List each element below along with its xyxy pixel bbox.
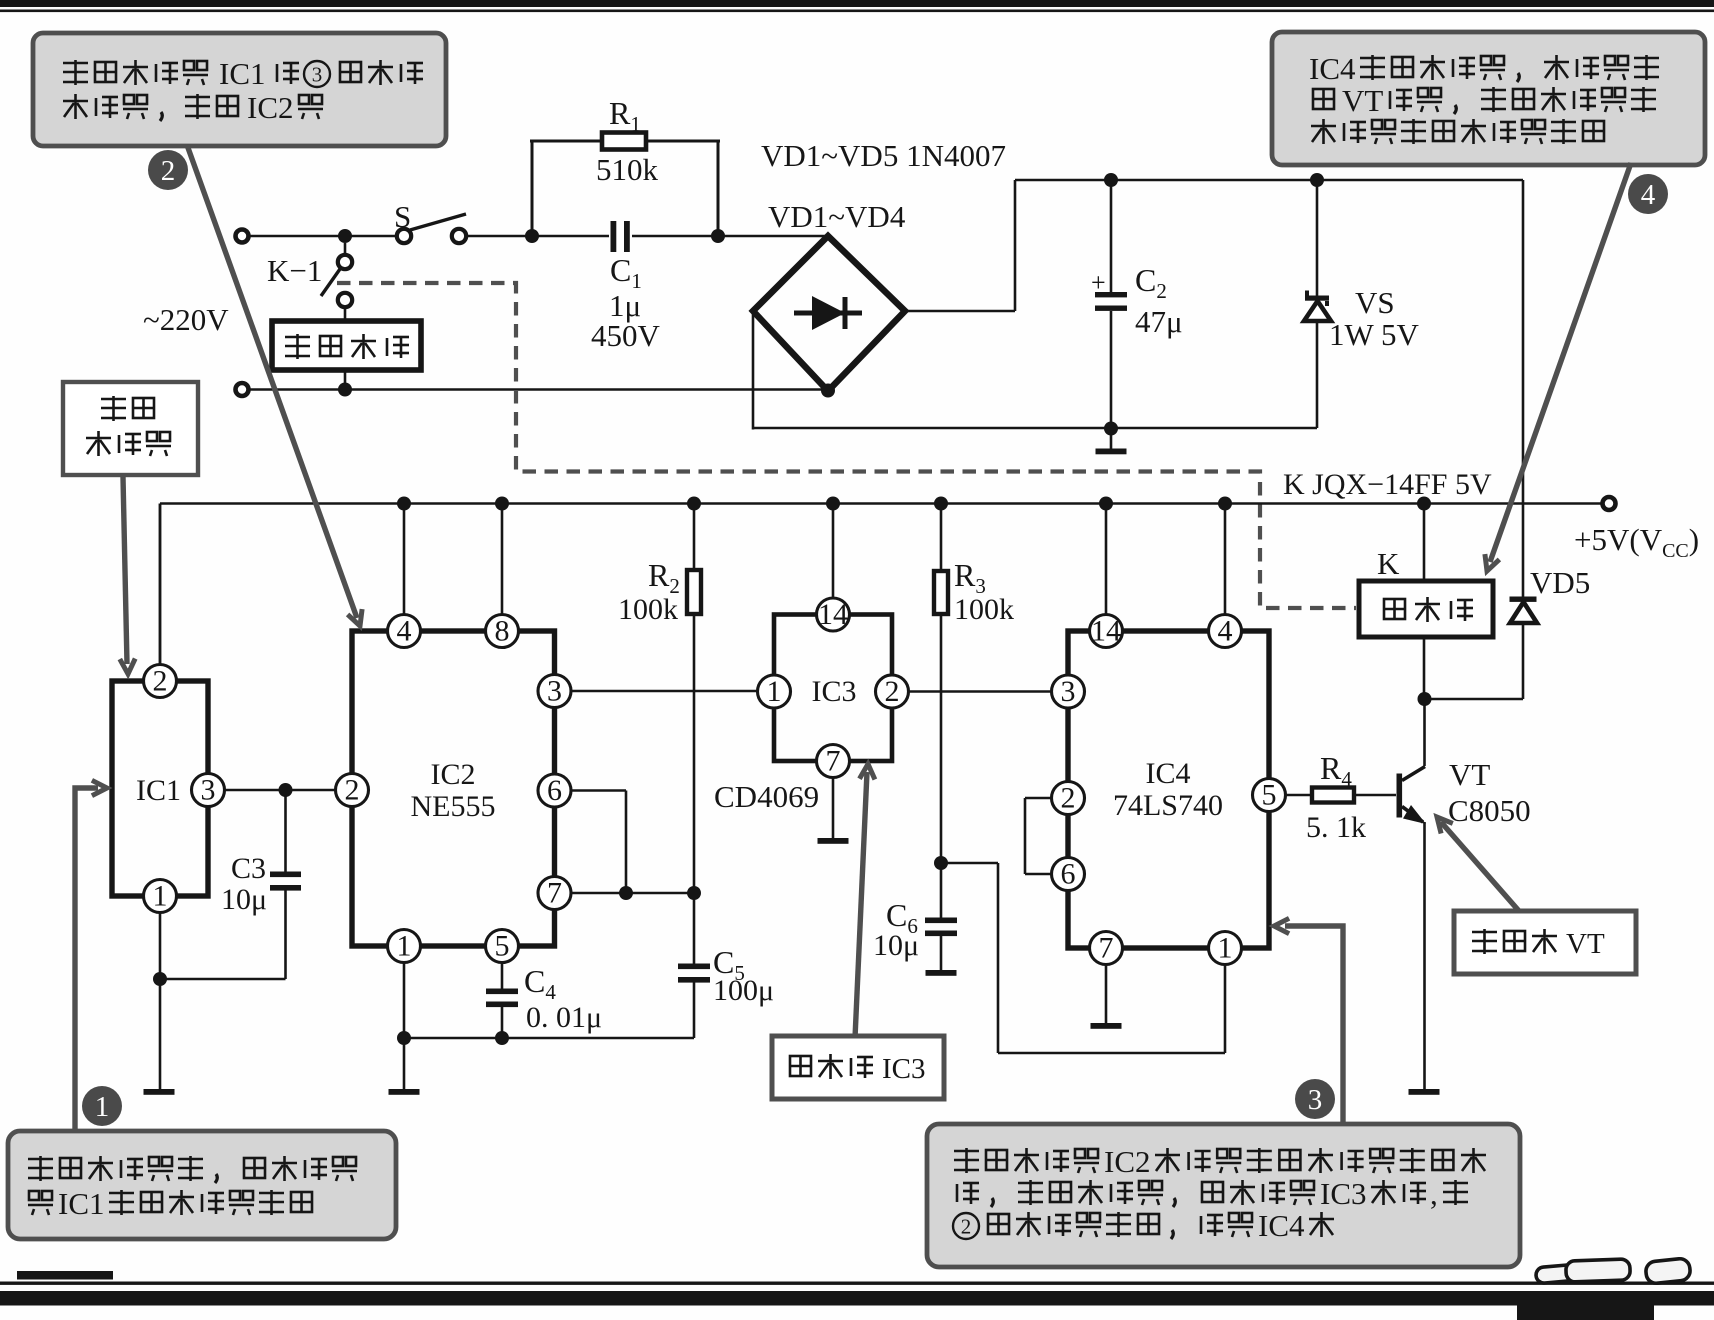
logic IC4 74LS740 bbox=[1068, 631, 1269, 948]
svg-text:3: 3 bbox=[547, 675, 562, 708]
ground IC2 bbox=[389, 1089, 420, 1095]
callout 4 text line2 bbox=[1313, 89, 1334, 109]
svg-text:VT: VT bbox=[1566, 928, 1605, 960]
arrow inverter label to IC3 pin7 bbox=[855, 772, 867, 1038]
pin 2 of IC1 bbox=[144, 665, 177, 698]
arrow callout2 to IC2 pin4 bbox=[187, 145, 357, 618]
wire +5V to IC3 pin14 bbox=[832, 504, 835, 599]
wire +5V to IC2 pin8 bbox=[501, 504, 504, 616]
svg-text:74LS740: 74LS740 bbox=[1113, 789, 1223, 822]
callout box 2 top-left bbox=[33, 33, 446, 146]
callout 1 text line2 bbox=[28, 1191, 53, 1215]
wire IC2 pin1 to ground bbox=[403, 963, 406, 1090]
bridge internal diode bbox=[794, 311, 862, 316]
capacitor C1 bbox=[611, 221, 617, 252]
svg-text:2: 2 bbox=[153, 665, 168, 698]
svg-text:2: 2 bbox=[885, 675, 900, 708]
svg-text:100μ: 100μ bbox=[713, 974, 774, 1007]
pin 4 of IC4 bbox=[1209, 615, 1242, 648]
svg-text:VD5: VD5 bbox=[1530, 565, 1590, 600]
ground VT emitter bbox=[1409, 1089, 1440, 1095]
timer IC2 NE555 bbox=[352, 631, 555, 946]
node +5V terminal bbox=[1603, 497, 1616, 510]
arrow callout3 to IC4 bbox=[1285, 926, 1343, 1124]
junction bridge bottom vertex bbox=[821, 384, 835, 398]
svg-text:~220V: ~220V bbox=[143, 302, 229, 337]
svg-text:K: K bbox=[1377, 546, 1400, 581]
junction +5V rail x=941 bbox=[934, 497, 948, 511]
svg-text:1: 1 bbox=[767, 675, 782, 708]
pin 6 of IC2 bbox=[538, 774, 571, 807]
pin 7 of IC3 bbox=[817, 745, 850, 778]
callout 3 text line1 bbox=[954, 1148, 979, 1173]
callout 4 text line3 bbox=[1311, 119, 1336, 144]
wire IC3 pin7 to ground bbox=[832, 778, 835, 839]
relay K coil box bbox=[1359, 581, 1493, 637]
svg-text:7: 7 bbox=[547, 877, 562, 910]
junction R1/C1 left bbox=[525, 229, 539, 243]
wire IC1 pin1 to ground bbox=[159, 913, 162, 1090]
svg-text:IC4: IC4 bbox=[1309, 51, 1356, 86]
junction pin1 bottom bbox=[397, 1031, 411, 1045]
node AC input lower terminal bbox=[236, 383, 249, 396]
pin 3 of IC2 bbox=[538, 675, 571, 708]
svg-text:IC4: IC4 bbox=[1258, 1208, 1305, 1243]
junction at K-1 top bbox=[338, 229, 352, 243]
svg-text:2: 2 bbox=[961, 1215, 972, 1239]
decor bottom-right bbox=[1535, 1258, 1691, 1284]
svg-text:5. 1k: 5. 1k bbox=[1306, 811, 1366, 844]
wire +5V to relay bbox=[1423, 504, 1426, 582]
label box transistor VT bbox=[1454, 911, 1636, 974]
ground IC1 bbox=[144, 1089, 175, 1095]
svg-text:1: 1 bbox=[95, 1091, 110, 1123]
text jidianqi bbox=[1384, 599, 1405, 619]
node AC input upper terminal bbox=[236, 230, 249, 243]
wire fan to lower line bbox=[344, 370, 347, 390]
text jieshouqi bbox=[86, 431, 111, 456]
pin 2 of IC3 bbox=[876, 675, 909, 708]
junction +5V rail x=1424 bbox=[1417, 497, 1431, 511]
capacitor C5 bbox=[693, 893, 696, 964]
svg-text:IC2: IC2 bbox=[431, 758, 476, 791]
pin 1 of IC2 bbox=[388, 930, 421, 963]
text jingtiguan VT bbox=[1472, 929, 1497, 954]
wire bridge left to ground rail bbox=[752, 311, 755, 430]
inverter IC3 CD4069 bbox=[774, 615, 892, 762]
svg-text:CD4069: CD4069 bbox=[714, 779, 819, 814]
pin 4 of IC2 bbox=[388, 615, 421, 648]
svg-text:C8050: C8050 bbox=[1448, 793, 1531, 828]
junction R3 C6 IC4pin1 bbox=[934, 856, 948, 870]
wire R1 branch bbox=[531, 141, 534, 236]
callout box 4 top-right bbox=[1272, 32, 1705, 165]
wire IC3 pin2 to IC4 pin3 bbox=[909, 690, 1052, 693]
transistor VT C8050 bbox=[1423, 699, 1426, 766]
svg-text:7: 7 bbox=[1099, 932, 1114, 965]
svg-text:,: , bbox=[1430, 1176, 1438, 1211]
svg-text:7: 7 bbox=[826, 745, 841, 778]
numbered circle 3 bbox=[1295, 1079, 1335, 1119]
callout box 3 bottom-middle bbox=[927, 1124, 1520, 1267]
svg-text:10μ: 10μ bbox=[221, 883, 267, 916]
junction +5V rail x=1225 bbox=[1218, 497, 1232, 511]
ground C6 bbox=[926, 970, 957, 976]
wire bridge right to top rail bbox=[905, 310, 1015, 313]
svg-text:K JQX−14FF 5V: K JQX−14FF 5V bbox=[1283, 468, 1492, 501]
zener diode VS bbox=[1316, 180, 1319, 296]
wire R3/C6 node to IC4 pin1 bbox=[941, 862, 998, 865]
wire ground rail bbox=[753, 427, 1317, 430]
junction collector node bbox=[1418, 692, 1432, 706]
pin 1 of IC3 bbox=[758, 675, 791, 708]
svg-text:IC1: IC1 bbox=[58, 1186, 105, 1221]
junction fan bottom bbox=[338, 383, 352, 397]
diode VD5 bbox=[1510, 597, 1537, 602]
fan load box bbox=[272, 321, 421, 370]
wire relay bottom to collector node bbox=[1423, 637, 1426, 699]
junction C2 bottom bbox=[1104, 422, 1118, 436]
resistor R4 bbox=[1286, 794, 1313, 797]
svg-text:2: 2 bbox=[1061, 782, 1076, 815]
junction +5V rail x=404 bbox=[397, 497, 411, 511]
svg-text:2: 2 bbox=[161, 155, 176, 187]
junction C3 bottom bbox=[153, 972, 167, 986]
svg-text:6: 6 bbox=[547, 774, 562, 807]
pin 2 of IC4 bbox=[1052, 782, 1085, 815]
pin 5 of IC4 bbox=[1253, 779, 1286, 812]
arrow callout4 to relay bbox=[1490, 163, 1631, 562]
junction pin6 link bbox=[619, 886, 633, 900]
junction +5V rail x=1106 bbox=[1099, 497, 1113, 511]
resistor R1 bbox=[602, 133, 646, 150]
callout 1 text line1 bbox=[28, 1156, 53, 1181]
junction R1/C1 right bbox=[711, 229, 725, 243]
svg-text:C3: C3 bbox=[231, 852, 266, 885]
capacitor C4 bbox=[501, 963, 504, 990]
ground C2 bbox=[1096, 449, 1127, 455]
wire top rail down right side bbox=[1522, 180, 1525, 597]
pin 14 of IC3 bbox=[817, 598, 850, 631]
junction +5V rail x=694 bbox=[687, 497, 701, 511]
svg-text:1W 5V: 1W 5V bbox=[1329, 317, 1419, 352]
svg-text:3: 3 bbox=[1308, 1084, 1323, 1116]
svg-text:S: S bbox=[394, 199, 411, 234]
wire IC2 pin6 to pin7 node bbox=[571, 789, 626, 792]
pin 3 of IC4 bbox=[1052, 675, 1085, 708]
pin 5 of IC2 bbox=[486, 930, 519, 963]
svg-text:4: 4 bbox=[397, 615, 412, 648]
capacitor C2 bbox=[1110, 180, 1113, 293]
svg-text:14: 14 bbox=[1091, 615, 1121, 648]
svg-text:6: 6 bbox=[1061, 858, 1076, 891]
svg-text:IC3: IC3 bbox=[882, 1053, 926, 1085]
arrow callout1 to IC1 bbox=[75, 788, 98, 1131]
wire +5V to IC2 pin4 bbox=[403, 504, 406, 616]
junction +5V rail x=833 bbox=[826, 497, 840, 511]
wire IC1 pin3 to IC2 pin2 bbox=[225, 789, 336, 792]
svg-text:VT: VT bbox=[1342, 83, 1383, 118]
junction C4 bottom bbox=[495, 1031, 509, 1045]
svg-text:5: 5 bbox=[1262, 779, 1277, 812]
junction VS top bbox=[1310, 173, 1324, 187]
svg-text:1: 1 bbox=[153, 880, 168, 913]
wire AC lower line bbox=[249, 388, 828, 391]
dashed link K-1 to relay K bbox=[337, 283, 1356, 608]
svg-text:VD1~VD5 1N4007: VD1~VD5 1N4007 bbox=[761, 138, 1006, 173]
wire IC2 pin7 line bbox=[571, 892, 694, 895]
callout 2 text line2 bbox=[63, 94, 88, 119]
svg-text:IC1: IC1 bbox=[136, 774, 181, 807]
svg-text:14: 14 bbox=[818, 598, 848, 631]
junction R2 C5 bbox=[687, 886, 701, 900]
svg-text:VT: VT bbox=[1449, 757, 1490, 792]
text hongwai bbox=[101, 396, 126, 421]
callout 3 text line2 bbox=[957, 1183, 979, 1204]
svg-text:100k: 100k bbox=[618, 593, 678, 626]
capacitor C3 bbox=[284, 790, 287, 872]
svg-text:IC2: IC2 bbox=[1104, 1144, 1151, 1179]
svg-text:1: 1 bbox=[397, 930, 412, 963]
wire +V top rail bbox=[1015, 179, 1523, 182]
wire IC2 pin3 to IC3 pin1 bbox=[571, 690, 758, 693]
callout 2 text line1 bbox=[63, 60, 88, 85]
ground IC4 bbox=[1091, 1023, 1122, 1029]
label box inverter IC3 bbox=[772, 1036, 944, 1099]
svg-text:3: 3 bbox=[201, 774, 216, 807]
wire pin1-C4-C5 bottom link bbox=[404, 1037, 694, 1040]
arrow VT label to transistor bbox=[1441, 822, 1519, 911]
switch S bbox=[397, 229, 411, 243]
pin 1 of IC4 bbox=[1209, 932, 1242, 965]
wire +5V rail bbox=[160, 502, 1602, 505]
svg-text:VD1~VD4: VD1~VD4 bbox=[768, 199, 906, 234]
svg-text:IC2: IC2 bbox=[247, 90, 294, 125]
junction C3 top bbox=[279, 783, 293, 797]
pin 3 of IC1 bbox=[192, 774, 225, 807]
svg-text:4: 4 bbox=[1218, 615, 1233, 648]
capacitor C6 bbox=[925, 918, 957, 924]
numbered circle 1 bbox=[82, 1086, 122, 1126]
pin 7 of IC2 bbox=[538, 877, 571, 910]
pin 14 of IC4 bbox=[1090, 615, 1123, 648]
svg-text:IC3: IC3 bbox=[1320, 1176, 1367, 1211]
arrow infrared box to IC1 bbox=[123, 477, 127, 664]
svg-text:8: 8 bbox=[495, 615, 510, 648]
callout box 1 bottom-left bbox=[8, 1131, 396, 1239]
junction C2 top bbox=[1104, 173, 1118, 187]
resistor R2 bbox=[693, 504, 696, 571]
svg-text:+: + bbox=[1091, 268, 1106, 297]
resistor R3 bbox=[940, 504, 943, 572]
svg-text:K−1: K−1 bbox=[267, 253, 322, 288]
svg-text:4: 4 bbox=[1641, 179, 1656, 211]
svg-text:2: 2 bbox=[345, 774, 360, 807]
wire IC4 pin7 to ground bbox=[1105, 965, 1108, 1024]
pin 6 of IC4 bbox=[1052, 858, 1085, 891]
wire +5V to IC4 pin4 bbox=[1224, 504, 1227, 616]
relay contact K-1 bbox=[344, 243, 347, 255]
pin 7 of IC4 bbox=[1090, 932, 1123, 965]
svg-text:3: 3 bbox=[1061, 675, 1076, 708]
svg-text:IC4: IC4 bbox=[1146, 757, 1191, 790]
svg-text:IC3: IC3 bbox=[812, 675, 857, 708]
pin 1 of IC1 bbox=[144, 880, 177, 913]
junction +5V rail x=502 bbox=[495, 497, 509, 511]
svg-text:NE555: NE555 bbox=[411, 790, 496, 823]
svg-text:100k: 100k bbox=[954, 593, 1014, 626]
svg-text:5: 5 bbox=[495, 930, 510, 963]
wire AC upper line bbox=[249, 235, 397, 238]
numbered circle 4 bbox=[1628, 174, 1668, 214]
text fanxiangqi IC3 bbox=[790, 1056, 811, 1076]
bridge rectifier VD1-VD4 bbox=[753, 236, 905, 391]
svg-text:10μ: 10μ bbox=[873, 929, 919, 962]
svg-text:3: 3 bbox=[312, 63, 323, 87]
ground IC3 bbox=[818, 838, 849, 844]
svg-text:47μ: 47μ bbox=[1135, 304, 1183, 339]
pin 2 of IC2 bbox=[336, 774, 369, 807]
pin 8 of IC2 bbox=[486, 615, 519, 648]
svg-text:IC1: IC1 bbox=[219, 56, 266, 91]
op-amp IC1 infrared receiver bbox=[112, 681, 208, 896]
svg-text:450V: 450V bbox=[591, 318, 661, 353]
svg-text:VS: VS bbox=[1355, 285, 1395, 320]
svg-text:510k: 510k bbox=[596, 152, 659, 187]
callout 3 text line3 bbox=[953, 1213, 979, 1239]
svg-text:1: 1 bbox=[1218, 932, 1233, 965]
svg-text:0. 01μ: 0. 01μ bbox=[526, 1001, 602, 1034]
wire +5V to IC4 pin14 bbox=[1105, 504, 1108, 616]
text fengshan fuzai bbox=[285, 334, 310, 359]
numbered circle 2 bbox=[148, 150, 188, 190]
label box infrared receiver bbox=[63, 382, 198, 475]
wire IC4 pin2 to pin6 link bbox=[1025, 797, 1052, 800]
wire +5V to IC1 pin2 bbox=[159, 504, 162, 666]
